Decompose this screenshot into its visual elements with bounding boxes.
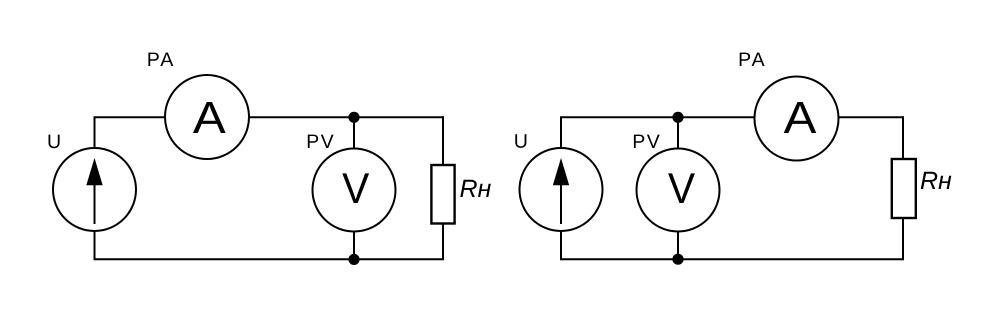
wire: voltmeter PV2 bottom branch [677, 230, 679, 259]
voltmeter PV2 letter V [668, 173, 695, 203]
junction node (left, top) [348, 112, 359, 123]
wire: top rail from source U1 to ammeter PA1 [95, 117, 166, 149]
junction node (right, top) [672, 112, 683, 123]
ammeter PA2 (circle) [755, 77, 839, 161]
voltmeter PV1 letter V [342, 173, 369, 203]
source U1 (voltage source U, circle with arrow) [53, 148, 136, 231]
label U (left source) [49, 135, 60, 149]
label PV (right) [634, 135, 660, 148]
label PV (left) [308, 135, 334, 148]
source U2 (voltage source U, circle with arrow) [520, 148, 603, 231]
junction node (left, bottom) [348, 254, 359, 265]
wire: resistor R2 bottom to bottom rail [902, 217, 904, 260]
wire: top rail from ammeter PA2 to load corner [839, 116, 904, 118]
wire: resistor R1 bottom to bottom rail [442, 223, 444, 260]
wire: bottom rail [95, 258, 444, 260]
ammeter PA2 letter A [784, 102, 817, 133]
wire: source U2 bottom to bottom rail [560, 230, 562, 260]
voltmeter PV2 (circle) [637, 149, 720, 232]
resistor R1 (load Rн, left) [431, 165, 454, 224]
ammeter PA1 letter A [193, 102, 226, 133]
junction node (right, bottom) [672, 254, 683, 265]
label Rн (right) [921, 172, 952, 189]
wire: voltmeter PV1 bottom branch [353, 230, 355, 259]
wire: voltmeter PV2 top branch [677, 117, 679, 150]
resistor R2 (load Rн, right) [892, 159, 916, 218]
wire: right side down to resistor R1 [442, 116, 444, 166]
label U (right source) [515, 134, 526, 148]
wire: top rail from ammeter PA1 to load corner [250, 116, 444, 118]
label Rн (left) [460, 180, 491, 197]
label PA (right) [740, 53, 765, 66]
wire: voltmeter PV1 top branch [353, 117, 355, 150]
voltmeter PV1 (circle) [313, 149, 396, 232]
wire: source U1 bottom to bottom rail [94, 230, 96, 260]
label PA (left) [148, 53, 173, 66]
wire: right side down to resistor R2 [902, 116, 904, 160]
wire: top rail from source U2 to ammeter PA2 [561, 117, 755, 149]
wire: bottom rail (right circuit) [561, 258, 903, 260]
ammeter PA1 (circle) [165, 75, 249, 159]
